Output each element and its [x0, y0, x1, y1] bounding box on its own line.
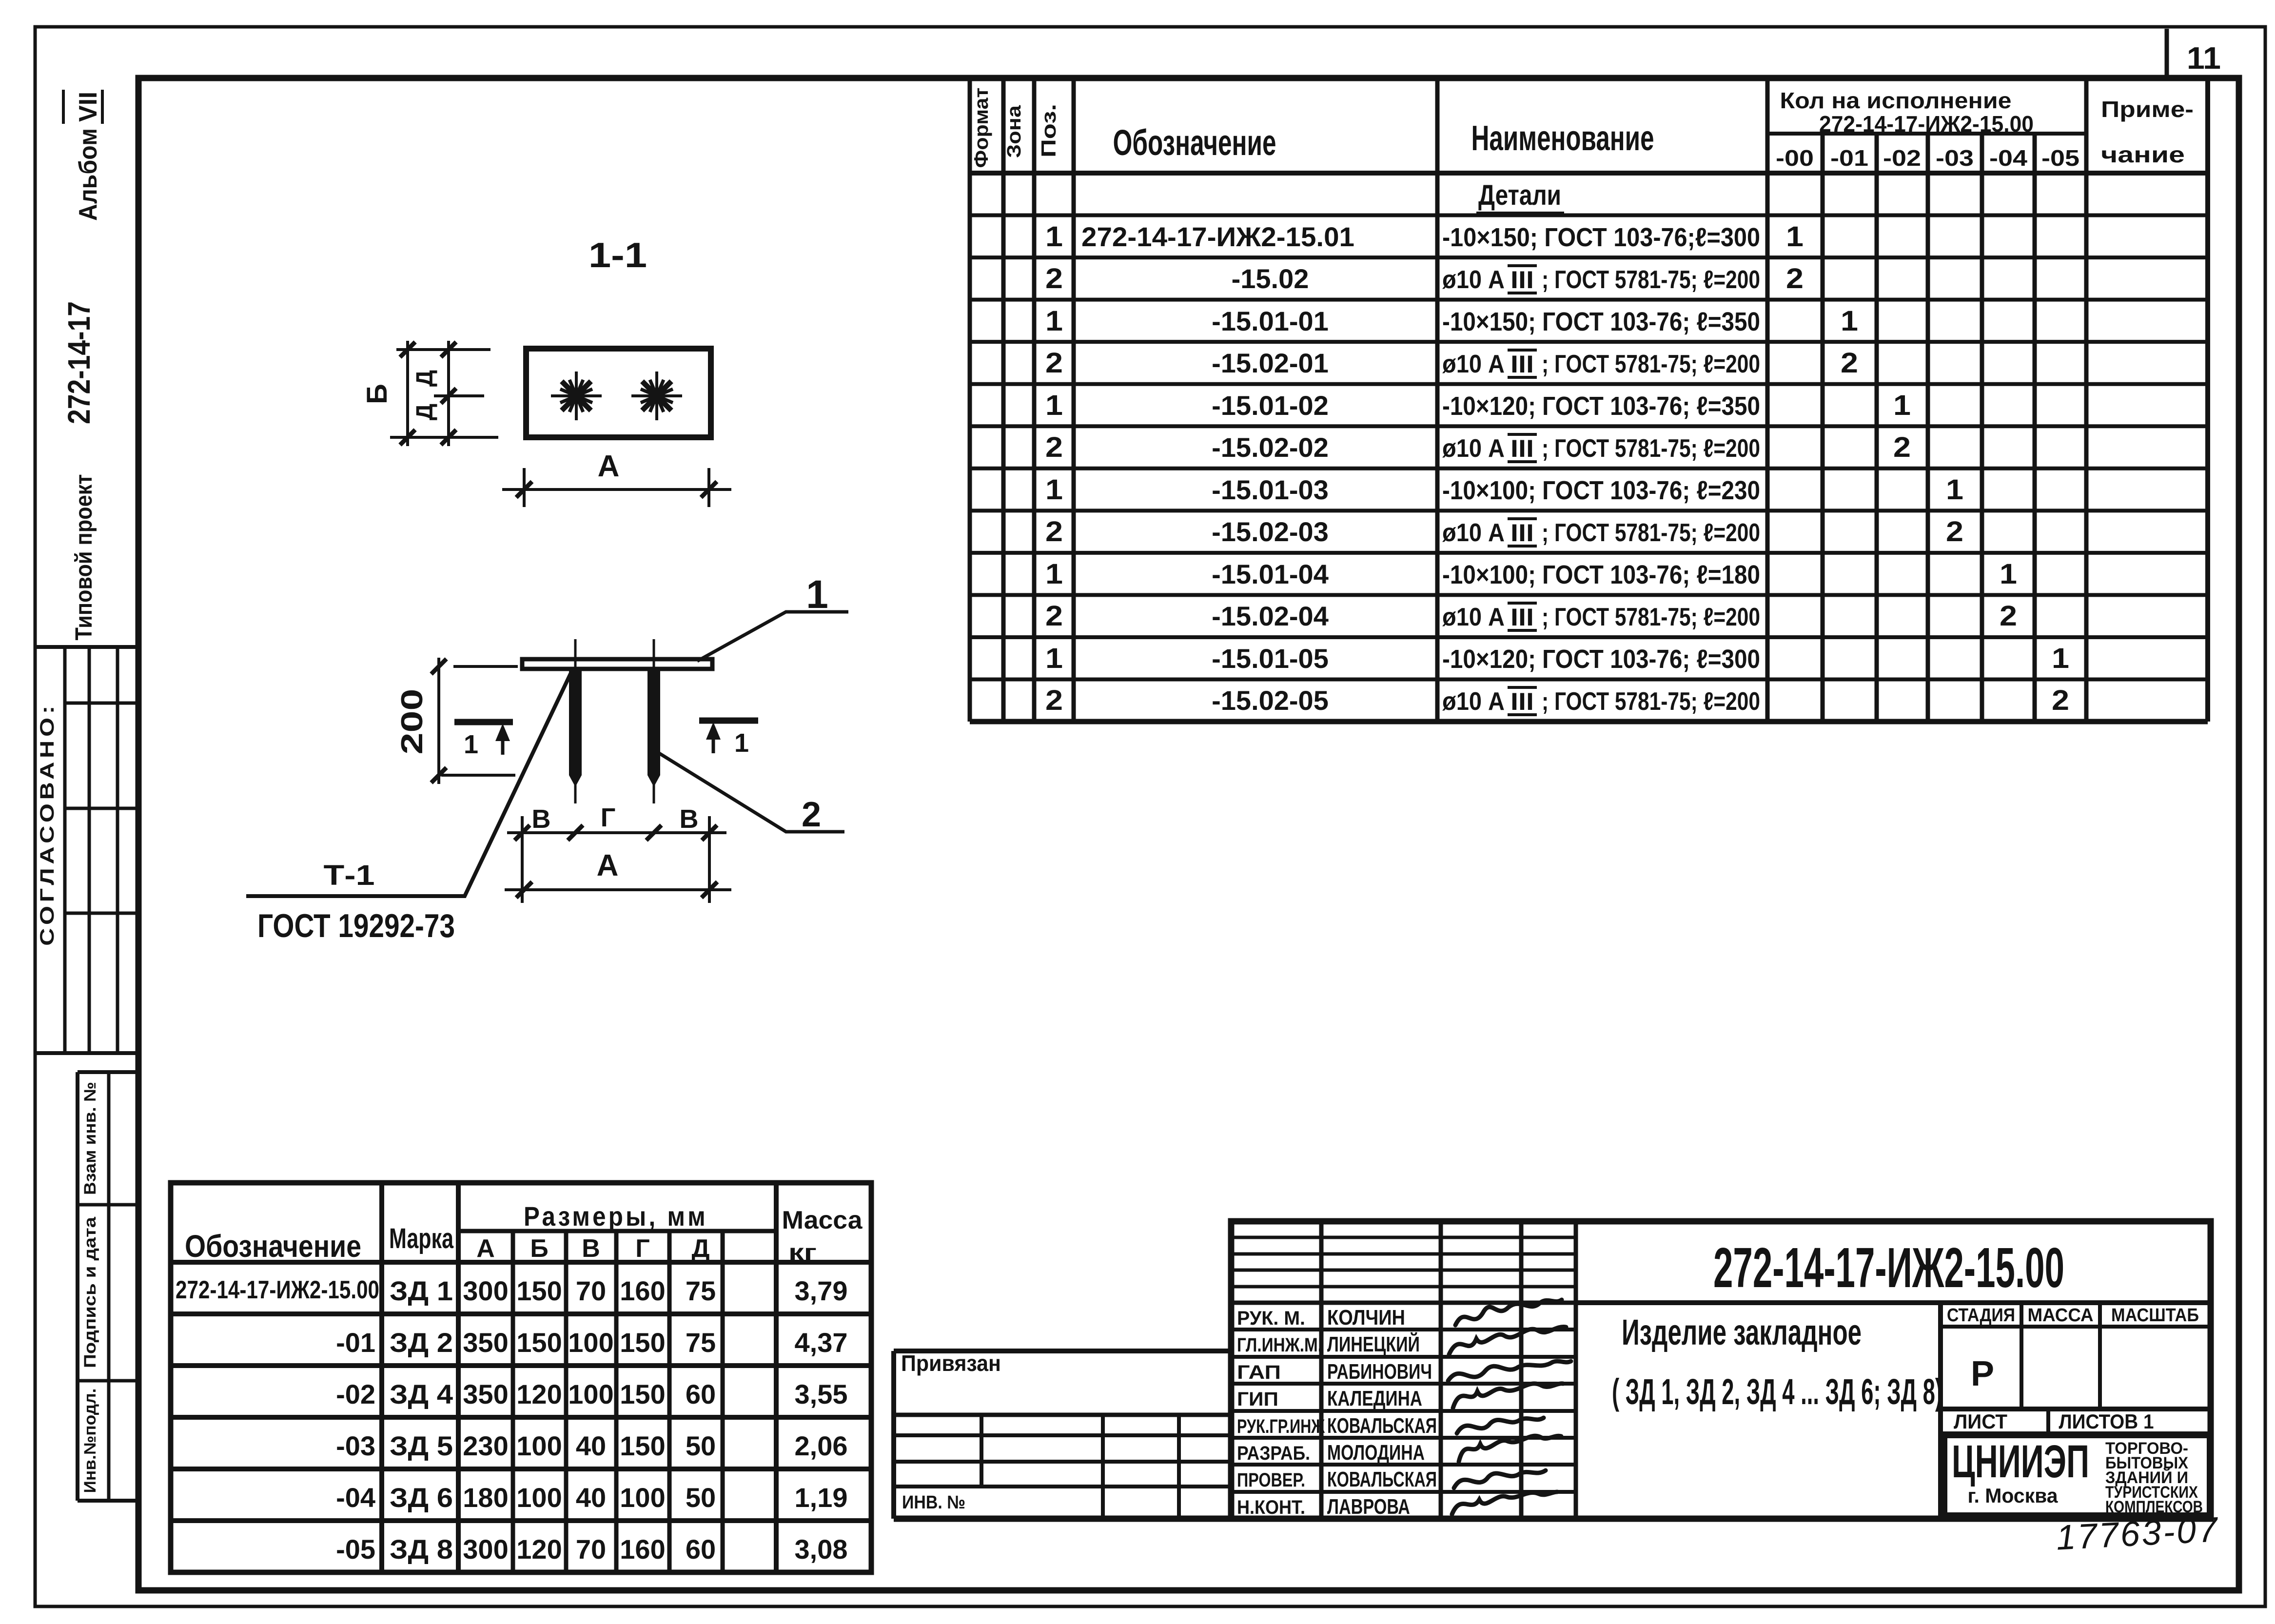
svg-text:2: 2: [802, 795, 821, 834]
svg-text:-15.01-01: -15.01-01: [1212, 306, 1329, 336]
svg-text:200: 200: [395, 689, 429, 755]
org box TSNIIEP: [1944, 1435, 2210, 1516]
svg-text:2: 2: [1045, 516, 1063, 548]
svg-text:РАБИНОВИЧ: РАБИНОВИЧ: [1327, 1360, 1432, 1384]
section mark left: [454, 722, 513, 759]
svg-text:100: 100: [516, 1482, 562, 1513]
sidebar album label: [63, 90, 102, 221]
svg-text:МАССА: МАССА: [2028, 1305, 2094, 1326]
page number box: [2165, 29, 2169, 78]
svg-text:Масса: Масса: [782, 1206, 863, 1234]
svg-text:ЗД 4: ЗД 4: [390, 1379, 453, 1409]
title row ГИП: [1237, 1387, 1422, 1410]
title row РУК. М.: [1237, 1306, 1405, 1330]
svg-text:2: 2: [1841, 347, 1858, 379]
svg-text:50: 50: [686, 1430, 716, 1461]
svg-text:180: 180: [463, 1482, 508, 1513]
svg-text:ЛИСТ: ЛИСТ: [1954, 1410, 2007, 1433]
svg-text:-15.02-02: -15.02-02: [1212, 432, 1329, 463]
svg-text:Марка: Марка: [389, 1223, 454, 1254]
dim 200: [431, 658, 518, 784]
svg-text:Инв.№подл.: Инв.№подл.: [81, 1389, 99, 1493]
svg-text:( ЗД 1, ЗД 2, ЗД 4 ... ЗД 6; З: ( ЗД 1, ЗД 2, ЗД 4 ... ЗД 6; ЗД 8): [1612, 1371, 1942, 1412]
svg-text:РАЗРАБ.: РАЗРАБ.: [1237, 1443, 1310, 1464]
spec row -15.02-03: [1045, 516, 1963, 548]
svg-text:60: 60: [686, 1534, 716, 1565]
spec row -15.02-04: [1045, 600, 2017, 632]
svg-text:150: 150: [620, 1379, 665, 1409]
dim B vertical: [390, 341, 498, 446]
svg-text:1: 1: [1045, 643, 1063, 674]
svg-text:Д: Д: [412, 404, 438, 420]
svg-text:В: В: [582, 1234, 600, 1263]
svg-text:350: 350: [463, 1379, 508, 1409]
svg-text:70: 70: [576, 1534, 606, 1565]
svg-text:В: В: [680, 804, 699, 834]
spec row -15.02-05: [1045, 685, 2069, 716]
spec row -15.02-02: [1045, 431, 1911, 463]
svg-text:Т-1: Т-1: [324, 860, 375, 891]
svg-text:Р: Р: [1971, 1354, 1994, 1393]
stadiya massa masshtab: [1941, 1303, 2211, 1409]
svg-text:Наименование: Наименование: [1471, 119, 1654, 158]
svg-text:2: 2: [1045, 263, 1063, 294]
svg-text:3,08: 3,08: [795, 1534, 848, 1565]
svg-text:40: 40: [576, 1482, 606, 1513]
svg-text:Обозначение: Обозначение: [1113, 122, 1276, 163]
svg-text:ГЛ.ИНЖ.М.: ГЛ.ИНЖ.М.: [1237, 1334, 1322, 1356]
svg-text:А: А: [476, 1234, 495, 1263]
svg-text:150: 150: [620, 1327, 665, 1358]
svg-text:Альбом: Альбом: [74, 128, 102, 221]
svg-text:СТАДИЯ: СТАДИЯ: [1947, 1305, 2015, 1326]
svg-text:300: 300: [463, 1534, 508, 1565]
svg-text:-15.01-05: -15.01-05: [1212, 643, 1329, 674]
svg-text:-02: -02: [1883, 145, 1921, 171]
dim A below plan: [502, 468, 731, 507]
spec row detali: [1476, 179, 1564, 214]
svg-text:1: 1: [1045, 305, 1063, 337]
svg-text:1: 1: [1045, 558, 1063, 590]
svg-text:3,79: 3,79: [795, 1275, 848, 1306]
svg-text:Подпись и дата: Подпись и дата: [81, 1216, 99, 1368]
svg-text:Обозначение: Обозначение: [185, 1229, 361, 1264]
svg-text:-05: -05: [336, 1534, 375, 1565]
svg-text:1: 1: [806, 572, 828, 617]
svg-text:Приме-: Приме-: [2101, 97, 2194, 122]
title block name-table grid: [1231, 1221, 1576, 1519]
svg-text:ГОСТ 19292-73: ГОСТ 19292-73: [257, 907, 455, 944]
svg-text:РУК. М.: РУК. М.: [1237, 1308, 1305, 1329]
title name cell: [1938, 1303, 1943, 1519]
dims row ЗД 5: [336, 1430, 847, 1461]
svg-text:ГИП: ГИП: [1237, 1389, 1278, 1410]
svg-text:ИНВ. №: ИНВ. №: [902, 1492, 965, 1513]
svg-text:2: 2: [1045, 347, 1063, 379]
svg-text:2: 2: [2000, 600, 2017, 632]
title row РУК.ГР.ИНЖ: [1237, 1414, 1437, 1438]
svg-text:ЗД 5: ЗД 5: [390, 1430, 453, 1461]
svg-text:-15.02-03: -15.02-03: [1212, 516, 1329, 547]
svg-text:1: 1: [1045, 221, 1063, 253]
svg-text:1: 1: [1045, 390, 1063, 421]
svg-text:350: 350: [463, 1327, 508, 1358]
title row ГАП: [1237, 1360, 1432, 1384]
svg-text:-04: -04: [1989, 145, 2027, 171]
svg-text:100: 100: [568, 1327, 613, 1358]
svg-text:-10×100; ГОСТ 103-76; ℓ=230: -10×100; ГОСТ 103-76; ℓ=230: [1442, 476, 1760, 505]
anchor mark left (plan): [551, 372, 602, 420]
spec header exec cols: [1776, 145, 2079, 171]
svg-text:1,19: 1,19: [795, 1482, 848, 1513]
svg-text:Типовой проект: Типовой проект: [71, 474, 97, 641]
svg-text:Детали: Детали: [1478, 179, 1561, 211]
svg-text:-00: -00: [1776, 145, 1814, 171]
dim A (elevation): [505, 882, 731, 898]
spec row -15.01-02: [1045, 390, 1911, 421]
svg-text:В: В: [532, 804, 551, 834]
svg-text:120: 120: [516, 1379, 562, 1409]
svg-text:Размеры, мм: Размеры, мм: [524, 1201, 708, 1232]
svg-text:300: 300: [463, 1275, 508, 1306]
org box dept text: [2105, 1439, 2203, 1516]
dims row ЗД 2: [336, 1327, 847, 1358]
svg-text:-04: -04: [336, 1482, 375, 1513]
svg-text:ЛИСТОВ 1: ЛИСТОВ 1: [2059, 1410, 2154, 1433]
svg-text:11: 11: [2187, 40, 2221, 76]
svg-text:1: 1: [2000, 558, 2017, 590]
svg-text:-10×120; ГОСТ 103-76; ℓ=300: -10×120; ГОСТ 103-76; ℓ=300: [1442, 645, 1760, 674]
svg-text:150: 150: [516, 1327, 562, 1358]
svg-text:150: 150: [516, 1275, 562, 1306]
svg-text:ЗД 1: ЗД 1: [390, 1275, 453, 1306]
svg-text:ЛАВРОВА: ЛАВРОВА: [1327, 1495, 1410, 1519]
svg-text:МАСШТАБ: МАСШТАБ: [2111, 1305, 2199, 1326]
spec table grid: [970, 81, 2208, 722]
svg-text:кг: кг: [788, 1239, 817, 1265]
svg-text:70: 70: [576, 1275, 606, 1306]
svg-text:КАЛЕДИНА: КАЛЕДИНА: [1327, 1387, 1422, 1410]
soglasovano box: [35, 645, 138, 649]
svg-text:2,06: 2,06: [795, 1430, 848, 1461]
svg-text:ЗД 6: ЗД 6: [390, 1482, 453, 1513]
svg-text:2: 2: [1786, 263, 1804, 294]
svg-text:СОГЛАСОВАНО:: СОГЛАСОВАНО:: [37, 702, 58, 946]
svg-text:-15.01-04: -15.01-04: [1212, 559, 1329, 589]
title row ГЛ.ИНЖ.М.: [1237, 1331, 1420, 1356]
spec row -15.02: [1045, 263, 1804, 294]
section mark right: [699, 721, 758, 758]
weld leader T-1: [246, 672, 571, 896]
svg-text:Привязан: Привязан: [901, 1350, 1001, 1376]
svg-text:-03: -03: [1936, 145, 1974, 171]
svg-text:1: 1: [734, 728, 749, 758]
svg-text:ПРОВЕР.: ПРОВЕР.: [1237, 1469, 1305, 1491]
svg-text:Н.КОНТ.: Н.КОНТ.: [1237, 1497, 1305, 1518]
svg-text:-15.02-01: -15.02-01: [1212, 348, 1329, 378]
svg-text:3,55: 3,55: [795, 1379, 848, 1409]
privyazan block: [894, 1351, 1231, 1519]
svg-text:-10×150; ГОСТ 103-76; ℓ=350: -10×150; ГОСТ 103-76; ℓ=350: [1442, 307, 1760, 336]
title row Н.КОНТ.: [1237, 1495, 1410, 1519]
spec header primechanie: [2101, 97, 2194, 167]
svg-text:100: 100: [568, 1379, 613, 1409]
svg-text:ЗД 2: ЗД 2: [390, 1327, 453, 1358]
svg-text:А: А: [597, 849, 619, 882]
plate outline (plan): [526, 349, 711, 437]
dim D D vertical: [441, 341, 456, 446]
anchor mark right (plan): [631, 372, 682, 420]
svg-text:272-14-17-ИЖ2-15.01: 272-14-17-ИЖ2-15.01: [1081, 221, 1354, 252]
spec row 272-14-17-ИЖ2-15.01: [1045, 221, 1804, 253]
svg-text:-01: -01: [336, 1327, 375, 1358]
svg-text:40: 40: [576, 1430, 606, 1461]
svg-text:ЦНИИЭП: ЦНИИЭП: [1952, 1436, 2089, 1487]
svg-text:КОВАЛЬСКАЯ: КОВАЛЬСКАЯ: [1327, 1414, 1437, 1438]
svg-text:1: 1: [1841, 305, 1858, 337]
svg-text:1: 1: [1893, 390, 1911, 421]
svg-text:ЗД 8: ЗД 8: [390, 1534, 453, 1565]
plate bar (elevation): [522, 659, 712, 669]
spec row -15.01-01: [1045, 305, 1858, 337]
svg-text:1-1: 1-1: [588, 236, 647, 275]
spec row -15.02-01: [1045, 347, 1858, 379]
title block frame: [1231, 1221, 2211, 1519]
svg-text:50: 50: [686, 1482, 716, 1513]
spec row -15.01-03: [1045, 474, 1963, 506]
svg-text:г. Москва: г. Москва: [1968, 1484, 2059, 1507]
svg-text:2: 2: [1045, 431, 1063, 463]
svg-text:Б: Б: [530, 1234, 548, 1263]
handwritten archive number: [2055, 1510, 2220, 1557]
svg-text:Д: Д: [412, 370, 438, 387]
svg-text:Взам инв. №: Взам инв. №: [81, 1082, 99, 1195]
spec row -15.01-04: [1045, 558, 2017, 590]
svg-text:Б: Б: [361, 384, 393, 404]
svg-text:Формат: Формат: [971, 88, 992, 168]
anchor rod left: [569, 639, 582, 803]
dims row ЗД 1: [176, 1275, 848, 1306]
list / listov row: [1941, 1409, 2211, 1434]
svg-text:2: 2: [1045, 600, 1063, 632]
svg-text:МОЛОДИНА: МОЛОДИНА: [1327, 1441, 1425, 1465]
svg-text:2: 2: [1946, 516, 1963, 548]
svg-text:60: 60: [686, 1379, 716, 1409]
svg-text:-15.02-05: -15.02-05: [1212, 685, 1329, 716]
svg-text:-05: -05: [2041, 145, 2079, 171]
svg-text:-03: -03: [336, 1430, 375, 1461]
svg-text:-10×100; ГОСТ 103-76; ℓ=180: -10×100; ГОСТ 103-76; ℓ=180: [1442, 560, 1760, 589]
svg-text:-15.02: -15.02: [1232, 263, 1309, 294]
dims row ЗД 8: [336, 1534, 847, 1565]
anchor rod right: [647, 639, 660, 803]
svg-text:-10×120; ГОСТ 103-76; ℓ=350: -10×120; ГОСТ 103-76; ℓ=350: [1442, 391, 1760, 421]
spec row -15.01-05: [1045, 643, 2069, 674]
leader 2: [659, 753, 844, 834]
svg-text:-15.01-03: -15.01-03: [1212, 474, 1329, 505]
svg-text:230: 230: [463, 1430, 508, 1461]
svg-text:Зона: Зона: [1003, 105, 1025, 158]
svg-text:1: 1: [464, 730, 478, 759]
svg-text:272-14-17-ИЖ2-15.00: 272-14-17-ИЖ2-15.00: [1713, 1236, 2064, 1299]
dims row ЗД 6: [336, 1482, 847, 1513]
svg-text:КОЛЧИН: КОЛЧИН: [1327, 1306, 1405, 1330]
svg-text:КОВАЛЬСКАЯ: КОВАЛЬСКАЯ: [1327, 1467, 1437, 1491]
svg-text:Г: Г: [601, 803, 616, 832]
svg-text:РУК.ГР.ИНЖ: РУК.ГР.ИНЖ: [1237, 1416, 1325, 1437]
dims row ЗД 4: [336, 1379, 847, 1409]
svg-text:272-14-17-ИЖ2-15.00: 272-14-17-ИЖ2-15.00: [1819, 111, 2034, 137]
svg-text:-02: -02: [336, 1379, 375, 1409]
svg-text:150: 150: [620, 1430, 665, 1461]
svg-text:Кол на исполнение: Кол на исполнение: [1780, 88, 2012, 113]
svg-text:Д: Д: [691, 1234, 709, 1263]
svg-text:1: 1: [1045, 474, 1063, 506]
svg-text:272-14-17: 272-14-17: [61, 301, 97, 424]
svg-text:VII: VII: [74, 92, 102, 122]
leader 1: [697, 572, 848, 661]
svg-text:1: 1: [2052, 643, 2069, 674]
svg-text:2: 2: [2052, 685, 2069, 716]
svg-text:А: А: [598, 450, 620, 483]
svg-text:ЛИНЕЦКИЙ: ЛИНЕЦКИЙ: [1327, 1331, 1420, 1356]
svg-text:2: 2: [1045, 685, 1063, 716]
svg-text:чание: чание: [2101, 142, 2185, 167]
dims table grid: [171, 1183, 871, 1572]
svg-text:1: 1: [1946, 474, 1963, 506]
svg-text:100: 100: [516, 1430, 562, 1461]
svg-text:100: 100: [620, 1482, 665, 1513]
svg-text:ГАП: ГАП: [1237, 1362, 1281, 1383]
svg-text:-15.02-04: -15.02-04: [1212, 601, 1329, 631]
svg-text:160: 160: [620, 1534, 665, 1565]
svg-text:2: 2: [1893, 431, 1911, 463]
title row ПРОВЕР.: [1237, 1467, 1437, 1491]
svg-text:1: 1: [1786, 221, 1804, 253]
signatures: [1448, 1300, 1571, 1514]
svg-text:Поз.: Поз.: [1037, 104, 1060, 157]
svg-text:75: 75: [686, 1327, 716, 1358]
svg-text:160: 160: [620, 1275, 665, 1306]
svg-text:120: 120: [516, 1534, 562, 1565]
svg-text:-10×150; ГОСТ 103-76;ℓ=300: -10×150; ГОСТ 103-76;ℓ=300: [1442, 223, 1760, 252]
svg-text:4,37: 4,37: [795, 1327, 848, 1358]
svg-text:272-14-17-ИЖ2-15.00: 272-14-17-ИЖ2-15.00: [176, 1276, 379, 1304]
svg-text:Изделие закладное: Изделие закладное: [1622, 1312, 1862, 1352]
title row РАЗРАБ.: [1237, 1441, 1425, 1465]
svg-text:-01: -01: [1830, 145, 1868, 171]
svg-text:75: 75: [686, 1275, 716, 1306]
dim V G V: [507, 816, 726, 903]
sidebar stamp boxes: [78, 1070, 138, 1074]
svg-text:Г: Г: [635, 1234, 649, 1263]
svg-text:-15.01-02: -15.01-02: [1212, 390, 1329, 421]
